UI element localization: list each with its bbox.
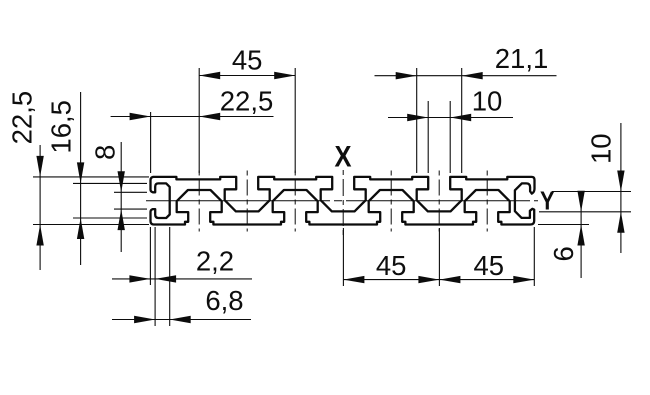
extension lines for left-side dimensions	[33, 177, 149, 225]
centerline bottom slot 4	[486, 171, 488, 232]
dimension 6,8 (groove depth)	[112, 285, 251, 323]
dimension 22,5 (profile height)	[7, 91, 44, 270]
aluminium profile cross-section outline	[151, 177, 535, 225]
svg-text:X: X	[334, 140, 351, 173]
svg-text:10: 10	[472, 85, 503, 116]
svg-text:45: 45	[376, 250, 407, 281]
dimension 45 (top slot pitch)	[199, 45, 295, 80]
centerline bottom slot 3	[390, 171, 392, 232]
extension lines for bottom dimensions	[150, 227, 534, 326]
dimension 2,2 (lip wall)	[112, 246, 252, 283]
svg-text:6,8: 6,8	[205, 285, 243, 316]
dimension 6 (floor thickness)	[548, 191, 585, 278]
svg-text:45: 45	[474, 250, 505, 281]
extension lines for right-side dimensions	[538, 192, 631, 225]
centerline bottom slot 1	[198, 171, 200, 232]
dimension 45 45 (bottom pitches)	[343, 250, 534, 283]
svg-text:Y: Y	[540, 187, 555, 216]
dimension 22,5 (edge to first slot)	[111, 86, 274, 121]
svg-text:8: 8	[89, 145, 120, 160]
centerline top slot 3	[438, 171, 440, 232]
X axis centerline	[342, 170, 344, 238]
svg-text:22,5: 22,5	[7, 91, 38, 145]
svg-text:10: 10	[585, 133, 616, 164]
dimension 10 (slot opening width)	[388, 85, 513, 121]
dimension 10 (channel opening height)	[585, 123, 624, 253]
svg-text:6: 6	[548, 246, 579, 261]
dimension 8 (groove opening)	[89, 142, 125, 252]
svg-text:21,1: 21,1	[495, 43, 549, 74]
svg-text:2,2: 2,2	[196, 246, 234, 277]
svg-text:16,5: 16,5	[46, 100, 77, 154]
centerline top slot 1	[246, 171, 248, 232]
svg-text:22,5: 22,5	[220, 86, 274, 117]
dimension 16,5 (groove cavity height)	[46, 92, 85, 265]
dimension 21,1 (slot cavity width)	[375, 43, 557, 80]
svg-text:45: 45	[232, 45, 263, 76]
extension lines for top dimensions	[151, 68, 462, 173]
Y axis centerline	[146, 200, 538, 202]
centerline bottom slot 2	[294, 171, 296, 232]
